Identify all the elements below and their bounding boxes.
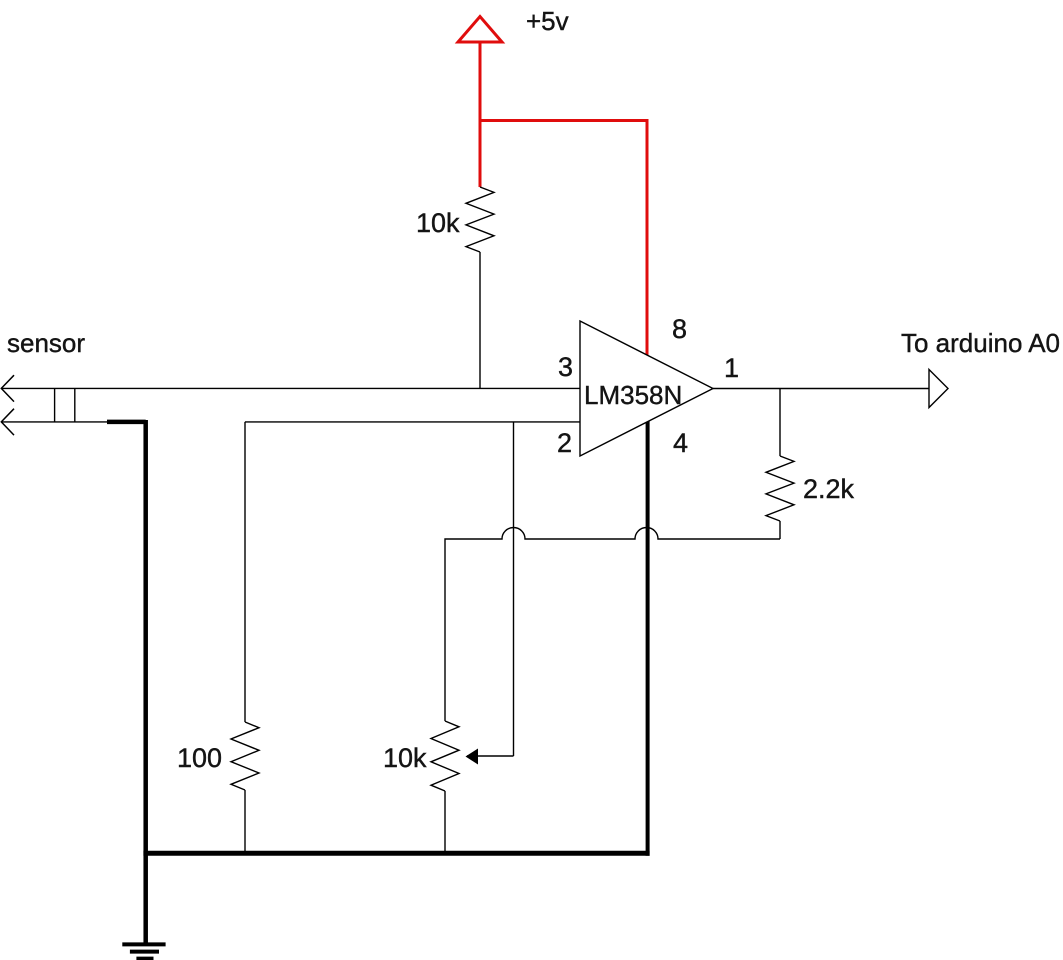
wire +5v red vertical and horizontal to pin 8 — [480, 40, 647, 380]
svg-text:To arduino A0: To arduino A0 — [901, 328, 1060, 358]
svg-text:sensor: sensor — [7, 328, 85, 358]
svg-text:2: 2 — [557, 428, 572, 458]
wire feedback with hops to pot top — [445, 528, 780, 722]
svg-text:+5v: +5v — [526, 6, 569, 36]
potentiometer RV1 10k — [431, 721, 459, 791]
svg-text:4: 4 — [673, 428, 688, 458]
op-amp U1 LM358N — [580, 321, 713, 456]
svg-text:10k: 10k — [416, 208, 460, 238]
wire wiper horizontal — [467, 755, 514, 757]
resistor R3 2.2k — [766, 456, 794, 521]
connector bar 2 — [74, 388, 76, 422]
wire sensor bottom stub — [1, 421, 110, 423]
wiper arrow of potentiometer — [466, 749, 479, 765]
wire 100 bottom lead — [244, 790, 246, 853]
wire 2.2k bottom lead — [779, 521, 781, 539]
svg-text:10k: 10k — [383, 743, 427, 773]
wire output to arduino — [713, 388, 929, 390]
power symbol +5v triangle — [458, 17, 502, 43]
wire thick ground from sensor bottom down left side — [107, 420, 146, 944]
wire output down to 2.2k — [779, 389, 781, 457]
svg-text:3: 3 — [558, 352, 573, 382]
connector arrowhead sensor bottom — [1, 409, 14, 435]
svg-text:100: 100 — [177, 743, 222, 773]
connector arrowhead to arduino — [929, 370, 948, 408]
svg-text:1: 1 — [724, 353, 739, 383]
resistor R2 100 — [231, 722, 259, 790]
wire op-amp pin 2 net — [245, 421, 580, 423]
ground — [122, 944, 165, 958]
wire pot bottom lead — [444, 791, 446, 853]
connector arrowhead sensor top — [1, 375, 14, 401]
wire R1 lead to pin 3 net — [479, 252, 481, 388]
wire thick ground bottom bus — [143, 851, 649, 856]
svg-text:LM358N: LM358N — [584, 380, 682, 410]
svg-text:8: 8 — [672, 314, 687, 344]
wire sensor top to op-amp pin 3 — [1, 387, 580, 389]
resistor R1 10k (top) — [466, 187, 494, 252]
connector bar 1 — [54, 388, 56, 422]
svg-text:2.2k: 2.2k — [803, 474, 855, 504]
wire 100 top lead — [244, 422, 246, 722]
wire thick from op-amp pin 4 down to bus — [646, 400, 650, 856]
wire pin 2 to potentiometer wiper — [513, 422, 515, 756]
